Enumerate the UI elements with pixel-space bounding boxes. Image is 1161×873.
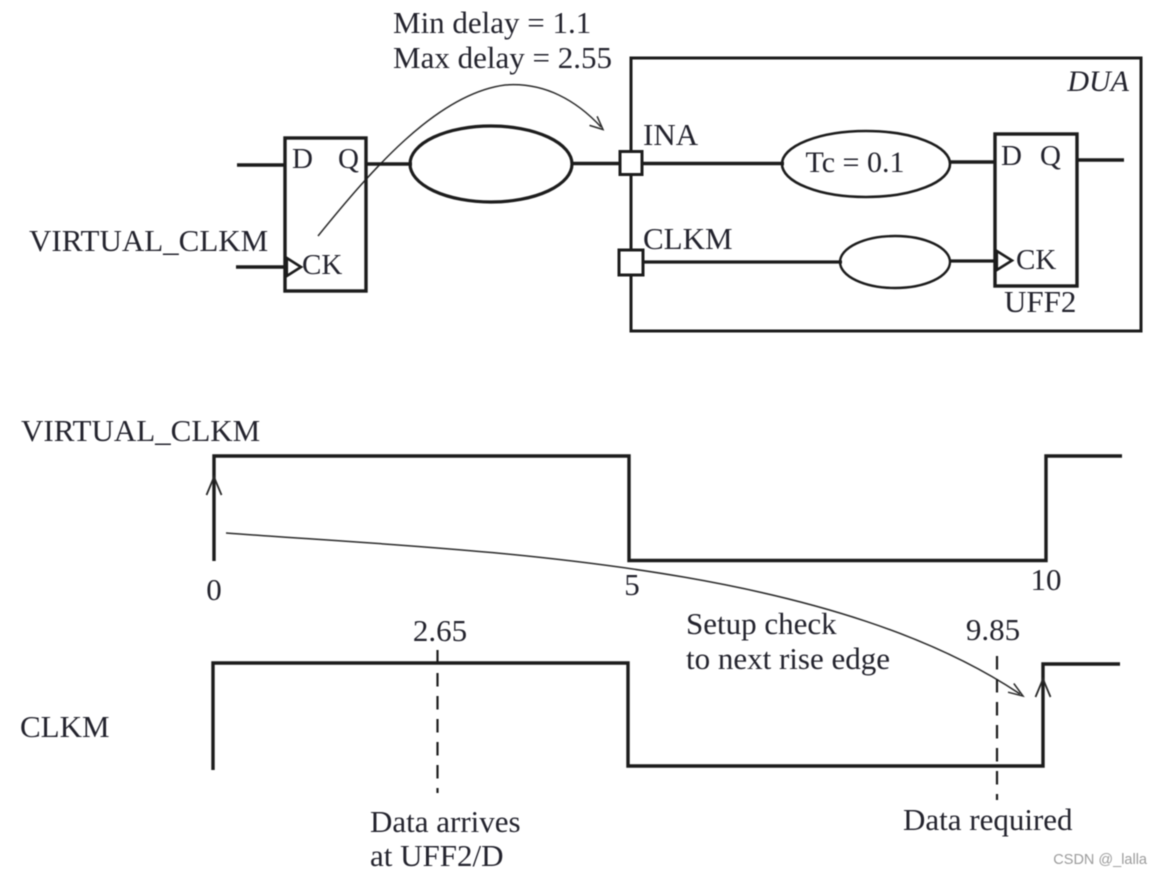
waveform CLKM trace: [213, 663, 1120, 770]
flip-flop UFF1 (launch flop): [285, 138, 366, 291]
svg-text:Tc = 0.1: Tc = 0.1: [806, 146, 905, 179]
svg-text:to next rise edge: to next rise edge: [686, 641, 890, 676]
svg-text:CK: CK: [302, 249, 342, 281]
wire: CLKM port to clock ellipse: [642, 260, 842, 263]
input port INA: [620, 152, 642, 175]
dashed marker at 9.85: [996, 656, 998, 800]
dashed marker at 2.65: [436, 650, 438, 793]
input port CLKM: [619, 250, 643, 275]
wire: INA to Tc ellipse: [642, 162, 784, 165]
svg-text:10: 10: [1031, 562, 1062, 597]
svg-text:D: D: [292, 143, 313, 175]
rise-edge arrowhead at data required: [1036, 679, 1051, 697]
waveform VIRTUAL_CLKM trace: [214, 456, 1122, 561]
svg-text:Data required: Data required: [903, 802, 1073, 837]
svg-text:Setup check: Setup check: [686, 606, 837, 641]
wire: D input stub: [237, 163, 285, 166]
DUA block boundary: [631, 58, 1141, 331]
clock net delay ellipse: [840, 236, 950, 288]
svg-text:at UFF2/D: at UFF2/D: [370, 838, 504, 873]
svg-text:CK: CK: [1016, 244, 1056, 276]
net delay ellipse Tc: [782, 131, 950, 197]
svg-text:Q: Q: [1040, 140, 1061, 172]
wire: Q to net cloud: [366, 162, 412, 165]
svg-text:CLKM: CLKM: [20, 709, 110, 744]
svg-text:CLKM: CLKM: [643, 221, 733, 256]
wire: UFF2 Q output: [1077, 158, 1124, 161]
svg-text:9.85: 9.85: [966, 612, 1020, 647]
setup check arc to next rise edge: [226, 533, 1023, 696]
svg-text:VIRTUAL_CLKM: VIRTUAL_CLKM: [29, 223, 268, 258]
svg-text:2.65: 2.65: [413, 613, 467, 648]
svg-text:Data arrives: Data arrives: [370, 804, 521, 839]
clock edge triangle of launch flop: [287, 258, 301, 276]
svg-text:UFF2: UFF2: [1004, 284, 1076, 319]
wire: Tc ellipse to UFF2 D: [950, 160, 995, 163]
svg-text:5: 5: [624, 567, 640, 602]
svg-text:Q: Q: [338, 143, 359, 175]
annotation arrow from flip-flop to net delay: [318, 85, 603, 236]
svg-text:0: 0: [206, 572, 222, 607]
svg-text:INA: INA: [643, 117, 699, 152]
net delay cloud: [410, 126, 572, 202]
svg-text:D: D: [1001, 140, 1022, 172]
wire: clock ellipse to UFF2 CK: [950, 259, 995, 262]
svg-text:Min delay = 1.1: Min delay = 1.1: [393, 5, 591, 40]
wire: cloud to INA port: [572, 162, 621, 165]
rise-edge arrowhead at time 0: [207, 477, 222, 495]
svg-text:DUA: DUA: [1066, 65, 1129, 98]
wire: CK input stub: [236, 265, 285, 268]
svg-text:Max delay = 2.55: Max delay = 2.55: [393, 40, 612, 75]
clock edge triangle of UFF2: [997, 251, 1012, 270]
svg-text:CSDN @_lalla: CSDN @_lalla: [1053, 852, 1148, 868]
svg-text:VIRTUAL_CLKM: VIRTUAL_CLKM: [21, 413, 260, 448]
flip-flop UFF2: [995, 134, 1077, 286]
